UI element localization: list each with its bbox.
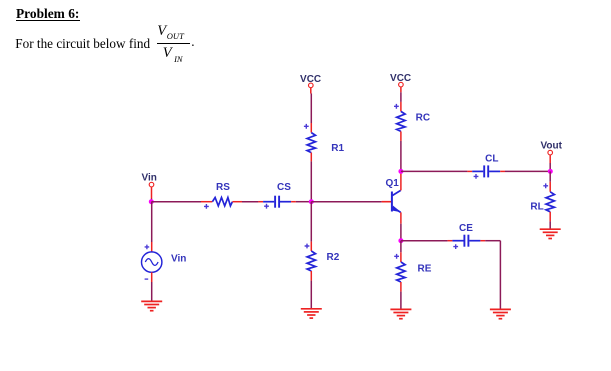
svg-text:CS: CS — [277, 182, 291, 193]
label RE — [418, 264, 432, 275]
wire node to RL — [549, 171, 551, 181]
terminal VCC left — [309, 83, 314, 93]
node emitter — [398, 238, 403, 243]
net label Vout — [541, 140, 563, 151]
wire RC to collector node — [400, 141, 402, 172]
node Vout — [548, 169, 553, 174]
label CE — [459, 223, 473, 234]
wire Vin node to RS — [152, 201, 202, 203]
resistor RL — [543, 182, 554, 222]
wire RS to CS — [242, 201, 258, 203]
net label VCC (left) — [300, 74, 321, 85]
node collector — [398, 169, 403, 174]
ground below CE — [490, 309, 511, 318]
label R2 — [327, 252, 340, 263]
fraction bar — [157, 43, 190, 44]
capacitor CE — [448, 235, 486, 249]
period — [191, 34, 194, 50]
wire CL to Vout node — [505, 170, 550, 172]
wire Vout terminal to node — [549, 163, 551, 171]
wire node to Q1 base — [311, 201, 381, 203]
node Vin junction — [149, 199, 154, 204]
wire emitter node to CE — [401, 240, 448, 242]
net label VCC (right) — [390, 73, 411, 84]
svg-text:CE: CE — [459, 223, 473, 234]
resistor RS — [201, 198, 242, 209]
ground below R2 — [301, 309, 322, 318]
wire emitter to RE — [400, 241, 402, 253]
net label Vin — [142, 173, 157, 184]
wire VCC2 to RC — [400, 92, 402, 102]
capacitor CS — [258, 196, 296, 209]
wire collector node to CL — [401, 170, 468, 172]
wire node to R2 — [310, 202, 312, 242]
ground below RL — [540, 229, 561, 238]
label R1 — [331, 143, 344, 154]
fraction numerator V_OUT — [157, 23, 166, 40]
ground below Vin source — [141, 301, 162, 310]
wire source to ground — [151, 272, 153, 301]
svg-text:CL: CL — [485, 153, 498, 164]
svg-text:Vout: Vout — [541, 140, 563, 151]
svg-text:Vin: Vin — [142, 173, 157, 184]
fraction denominator V_IN — [163, 45, 172, 62]
resistor R2 — [305, 242, 316, 281]
wire RL to ground — [549, 221, 551, 229]
sentence — [15, 36, 150, 52]
label RC — [416, 113, 430, 124]
resistor RE — [394, 252, 405, 291]
wire collector pin — [400, 173, 402, 190]
wire RE to ground — [400, 292, 402, 310]
svg-text:Vin: Vin — [171, 253, 186, 264]
resistor RC — [394, 102, 405, 141]
wire VCC1 to R1 — [310, 94, 312, 124]
capacitor CL — [467, 165, 505, 178]
svg-text:RL: RL — [530, 202, 543, 213]
svg-text:RS: RS — [216, 182, 230, 193]
label CS — [277, 182, 291, 193]
wire CE to corner and down — [485, 241, 500, 310]
svg-text:RE: RE — [418, 264, 432, 275]
wire emitter pin — [400, 212, 402, 238]
terminal Vin — [149, 182, 154, 198]
terminal Vout — [548, 150, 553, 163]
wire Vin terminal to node — [151, 199, 153, 202]
svg-text:RC: RC — [416, 113, 430, 124]
wire R2 to ground — [310, 281, 312, 309]
label Q1 — [386, 178, 400, 189]
svg-text:Q1: Q1 — [386, 178, 400, 189]
transistor Q1 — [382, 190, 402, 212]
resistor R1 — [304, 123, 316, 161]
title underline — [16, 20, 80, 22]
wire CS to R-divider node — [296, 201, 311, 203]
label Vin (source) — [171, 253, 186, 264]
terminal VCC right — [399, 82, 404, 92]
label CL — [485, 153, 498, 164]
wire node to source — [151, 202, 153, 252]
source Vin (AC) — [142, 245, 162, 280]
label RL — [530, 202, 543, 213]
title Problem 6 — [16, 6, 79, 22]
wire R1 to base node — [310, 161, 312, 201]
svg-text:R1: R1 — [331, 143, 344, 154]
svg-text:R2: R2 — [327, 252, 340, 263]
ground below RE — [390, 309, 411, 318]
node base divider junction — [309, 199, 314, 204]
label RS — [216, 182, 230, 193]
